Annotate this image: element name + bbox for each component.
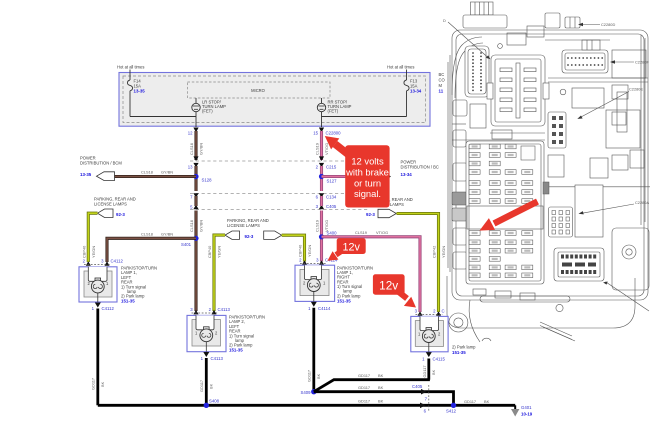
fusebox horizontal rail with leader <box>452 139 545 141</box>
node S408 <box>204 403 209 408</box>
svg-text:GD117: GD117 <box>464 399 476 404</box>
fuse F13 <box>406 70 408 81</box>
svg-text:CLS19: CLS19 <box>315 220 320 232</box>
svg-text:GD117: GD117 <box>358 373 370 378</box>
svg-text:CLS19: CLS19 <box>355 230 367 235</box>
wire S409 to C405 pin7 <box>314 392 454 406</box>
svg-text:CLS18: CLS18 <box>141 170 153 175</box>
svg-text:13-34: 13-34 <box>401 172 413 177</box>
svg-text:Hot at all times: Hot at all times <box>117 65 144 70</box>
lamp2 bottom pin <box>205 342 207 352</box>
wire bus right seg3 <box>320 196 323 206</box>
lamp 2 PARK/STOP/TURN LAMP 2 LEFT REAR <box>187 307 265 405</box>
svg-text:GD117: GD117 <box>91 378 96 390</box>
fusebox mid-right relay blocks <box>572 88 604 108</box>
svg-text:BK: BK <box>431 369 436 375</box>
svg-text:C4115: C4115 <box>433 357 446 362</box>
fusebox bottom boot <box>447 276 635 328</box>
svg-text:13: 13 <box>188 165 193 170</box>
svg-text:S412: S412 <box>446 409 457 414</box>
left parking lamps feed <box>82 197 136 263</box>
svg-text:BC: BC <box>439 72 445 77</box>
lamp3 bottom pin <box>313 292 315 302</box>
wire S128 to BCM pentagon <box>114 175 196 178</box>
wire bus right seg1 <box>320 131 323 160</box>
ground wiring <box>98 373 533 417</box>
node S409 <box>311 389 316 394</box>
svg-text:BK: BK <box>378 373 384 378</box>
svg-text:CBP42: CBP42 <box>432 246 437 258</box>
ground G401 <box>514 405 516 409</box>
wire bus left seg2 <box>194 166 197 191</box>
wire parking center-right to lamp3 pin2 <box>282 235 305 261</box>
svg-text:BK: BK <box>378 399 384 404</box>
svg-text:CLS19: CLS19 <box>315 143 320 155</box>
svg-text:13-35: 13-35 <box>80 172 92 177</box>
svg-text:11: 11 <box>439 89 444 94</box>
right bus CLS19 VT/OG <box>315 131 439 312</box>
RR FET output wire <box>321 112 323 127</box>
lamp2 housing <box>187 315 226 351</box>
connector arrow POWER DISTRIBUTION BCM <box>97 172 115 181</box>
svg-text:or turn: or turn <box>354 177 381 188</box>
svg-text:VT/OG: VT/OG <box>376 230 388 235</box>
red arrow to C22800 <box>335 144 349 155</box>
lamp4 housing <box>411 316 448 351</box>
svg-text:151-35: 151-35 <box>337 298 351 303</box>
leader line bottom right <box>606 282 650 311</box>
svg-text:GD117: GD117 <box>199 380 204 392</box>
wire bottom ground bus <box>98 404 515 407</box>
svg-text:15: 15 <box>313 131 318 136</box>
svg-text:BK: BK <box>484 399 490 404</box>
fusebox top connector ribbed cap <box>471 2 494 15</box>
svg-text:YE/GN: YE/GN <box>217 246 222 258</box>
svg-text:12 volts: 12 volts <box>351 156 384 167</box>
fusebox fuse array panel <box>466 141 544 284</box>
fusebox 12-pin connector <box>549 207 573 237</box>
fusebox small top connector C2280D <box>545 13 560 28</box>
fusebox dense connector <box>554 248 604 281</box>
wire bus right seg4 <box>320 211 323 262</box>
svg-text:M: M <box>439 83 443 88</box>
wire fuse F13 to RR FET <box>322 116 407 118</box>
svg-text:MICRO: MICRO <box>251 88 266 93</box>
dashed connector line 1 <box>190 160 368 162</box>
svg-text:BK: BK <box>378 385 384 390</box>
lamp 3 PARK/STOP/TURN LAMP 1 RIGHT REAR <box>295 258 373 392</box>
connector arrow parking center-right <box>264 231 282 239</box>
svg-text:DISTRIBUTION / BCM: DISTRIBUTION / BCM <box>80 161 122 166</box>
svg-text:(FET): (FET) <box>328 109 339 114</box>
node S127 <box>319 174 324 179</box>
svg-text:92-3: 92-3 <box>116 212 125 217</box>
wire bus left seg1 <box>194 131 197 160</box>
svg-text:C2280A: C2280A <box>635 200 649 205</box>
svg-text:92-3: 92-3 <box>366 212 375 217</box>
fusebox harness channel curves <box>452 37 482 95</box>
svg-text:C4112: C4112 <box>111 259 124 264</box>
svg-text:S401: S401 <box>181 242 192 247</box>
lamp2 pin arrows <box>194 310 199 315</box>
lamp1 housing <box>79 267 117 302</box>
svg-text:CLS18: CLS18 <box>189 220 194 232</box>
svg-text:13-34: 13-34 <box>410 88 422 93</box>
svg-text:CO: CO <box>439 78 446 83</box>
wire S400 to lamp4 pin3 <box>322 237 421 312</box>
connector arrow POWER DISTRIBUTION BC <box>370 172 390 181</box>
svg-text:G401: G401 <box>521 405 532 410</box>
op LR STOP/TURN LAMP FET <box>192 103 200 111</box>
svg-text:GD117: GD117 <box>358 385 370 390</box>
fuse box illustration (battery junction box) <box>443 2 650 342</box>
svg-text:CBP40: CBP40 <box>298 244 303 257</box>
svg-text:GY/BN: GY/BN <box>199 220 204 232</box>
svg-text:signal.: signal. <box>354 188 381 199</box>
svg-text:(FET): (FET) <box>202 109 213 114</box>
lamp1 ground wire <box>96 309 99 406</box>
svg-text:GY/BN: GY/BN <box>199 143 204 155</box>
node S400 <box>319 234 324 239</box>
svg-text:S128: S128 <box>202 178 213 183</box>
svg-text:12v: 12v <box>342 242 360 254</box>
svg-text:10-19: 10-19 <box>521 412 533 417</box>
svg-text:S400: S400 <box>327 231 338 236</box>
connector boundary dashed lines <box>190 161 368 210</box>
svg-text:C4112: C4112 <box>102 306 115 311</box>
svg-text:GY/BN: GY/BN <box>161 170 173 175</box>
svg-text:GD117: GD117 <box>358 399 370 404</box>
dashed connector line 3 <box>190 209 368 211</box>
BCM module box <box>119 73 430 127</box>
svg-text:Hot at all times: Hot at all times <box>387 65 414 70</box>
lamp 1 PARK/STOP/TURN LAMP 1 LEFT REAR <box>79 259 157 406</box>
svg-text:BK: BK <box>316 373 321 379</box>
fusebox wide connector C2280F <box>562 50 608 73</box>
fuse F14 <box>129 70 131 81</box>
svg-text:D: D <box>443 18 446 23</box>
red arrow fuse box F13 <box>494 202 538 224</box>
BCM box (hot at all times) <box>117 65 445 136</box>
wire parking right to lamp4 pin2 <box>397 214 439 313</box>
fusebox right bracket with circle <box>612 228 649 290</box>
bus right connector arrows at line2/3 <box>319 193 324 198</box>
svg-text:C22800: C22800 <box>326 131 342 136</box>
svg-text:BK: BK <box>208 383 213 389</box>
lamp3 pin arrows <box>302 260 307 265</box>
svg-text:12: 12 <box>188 131 193 136</box>
svg-text:GD117: GD117 <box>422 365 427 377</box>
svg-text:S127: S127 <box>327 179 338 184</box>
MICRO box <box>188 82 331 98</box>
svg-text:151-35: 151-35 <box>121 299 135 304</box>
svg-text:C4113: C4113 <box>218 307 231 312</box>
lamp4 pin arrows <box>418 311 423 316</box>
fusebox center relay module <box>491 55 545 126</box>
svg-text:BK: BK <box>100 381 105 387</box>
fusebox top connector base <box>463 15 507 28</box>
red arrow to lamp4 pin3 <box>398 291 408 299</box>
node S128 <box>193 174 198 179</box>
fusebox bottom mount circle right <box>556 304 563 311</box>
fusebox bottom diagonal strips <box>540 322 572 336</box>
svg-text:C405: C405 <box>326 204 337 209</box>
lamp1 pin arrows <box>86 261 91 266</box>
pin 15 exit arrow / C22800 <box>319 128 324 133</box>
LR FET output wire <box>195 112 197 127</box>
right parking lamps feed <box>366 197 446 312</box>
connector C405 dashed <box>428 385 430 412</box>
svg-text:YE/GN: YE/GN <box>91 246 96 258</box>
red callout 12 volts <box>345 145 389 207</box>
node S412 <box>451 403 456 408</box>
wire S409 diagonal to lamp4 line <box>314 380 430 392</box>
connector arrow parking left <box>98 209 114 218</box>
lamp3 housing <box>295 265 335 301</box>
RR FET drive line from MICRO <box>321 98 323 104</box>
wire parking left to lamp1 pin2 <box>88 213 97 262</box>
lamp4 ground wire <box>427 359 430 380</box>
svg-text:S408: S408 <box>209 399 220 404</box>
svg-text:YE/GN: YE/GN <box>307 245 312 257</box>
wire S127 to BC pentagon <box>322 175 373 178</box>
svg-text:C215: C215 <box>326 165 337 170</box>
svg-text:LICENSE LAMPS: LICENSE LAMPS <box>94 202 127 207</box>
svg-text:DISTRIBUTION / BC: DISTRIBUTION / BC <box>401 165 439 170</box>
svg-text:C2280E: C2280E <box>629 87 643 92</box>
lamp1 bottom pin <box>97 293 99 302</box>
red callout 12v lamp3 <box>337 238 366 254</box>
fusebox tall 2-column pin connector <box>465 46 489 97</box>
svg-text:12v: 12v <box>379 278 398 292</box>
fusebox main body outline <box>452 30 648 300</box>
svg-text:GD117: GD117 <box>307 370 312 382</box>
connector arrow parking right <box>378 209 396 217</box>
bus left connector arrows at line2/3 <box>193 193 198 198</box>
svg-text:CBP40: CBP40 <box>82 245 87 258</box>
wire parking center-left to lamp2 pin2 <box>214 235 225 311</box>
wire S401 to lamp1 <box>107 238 196 262</box>
wire bus right seg2 <box>320 166 323 191</box>
svg-text:C4113: C4113 <box>211 356 224 361</box>
svg-text:C: C <box>442 308 445 313</box>
red callouts <box>325 136 538 308</box>
svg-text:CBP40: CBP40 <box>207 245 212 258</box>
fusebox bottom-left mount circle <box>449 313 468 332</box>
svg-text:C134: C134 <box>326 195 337 200</box>
LR FET drive line from MICRO <box>195 98 197 104</box>
lamp4 bottom pin <box>428 343 430 352</box>
red callout 12v lamp4 <box>373 274 405 294</box>
svg-text:S409: S409 <box>300 390 311 395</box>
svg-text:151-35: 151-35 <box>452 350 466 355</box>
lamp3 ground wire <box>312 308 315 392</box>
svg-text:LICENSE LAMPS: LICENSE LAMPS <box>227 223 260 228</box>
svg-text:2) Park lamp: 2) Park lamp <box>452 345 476 350</box>
lamp 4 PARK/STOP/TURN LAMP 2 RIGHT REAR <box>411 308 476 379</box>
svg-text:CLS18: CLS18 <box>141 231 153 236</box>
pin 12 exit arrow <box>193 128 198 133</box>
svg-text:92-3: 92-3 <box>245 234 254 239</box>
svg-text:YE/GN: YE/GN <box>441 246 446 258</box>
svg-text:CLS18: CLS18 <box>189 143 194 155</box>
wire fuse F14 to LR FET <box>130 116 196 118</box>
connector arrow parking center-left <box>225 231 240 239</box>
lamp2 ground wire <box>205 358 208 405</box>
fusebox bottom edge tabs <box>473 289 486 295</box>
svg-text:151-35: 151-35 <box>229 348 243 353</box>
svg-text:VT/OG: VT/OG <box>324 143 329 155</box>
fusebox left rail tabs <box>453 100 467 116</box>
center parking lamps feeds <box>207 218 312 311</box>
node S401 <box>193 236 198 241</box>
dashed connector line 2 <box>190 193 368 195</box>
svg-text:C405: C405 <box>412 384 423 389</box>
wire bus left seg4 <box>194 211 197 312</box>
left bus CLS18 GY/BN <box>80 131 212 311</box>
svg-text:13-35: 13-35 <box>134 88 146 93</box>
svg-text:GY/BN: GY/BN <box>161 231 173 236</box>
wire bus left seg3 <box>194 196 197 206</box>
svg-text:C2280D: C2280D <box>601 22 615 27</box>
svg-text:with brake: with brake <box>345 167 389 178</box>
svg-text:C4114: C4114 <box>318 306 331 311</box>
red arrow to lamp3 pin3 <box>336 250 344 255</box>
svg-text:C2280F: C2280F <box>635 60 649 65</box>
op RR STOP/TURN LAMP FET <box>317 103 325 111</box>
